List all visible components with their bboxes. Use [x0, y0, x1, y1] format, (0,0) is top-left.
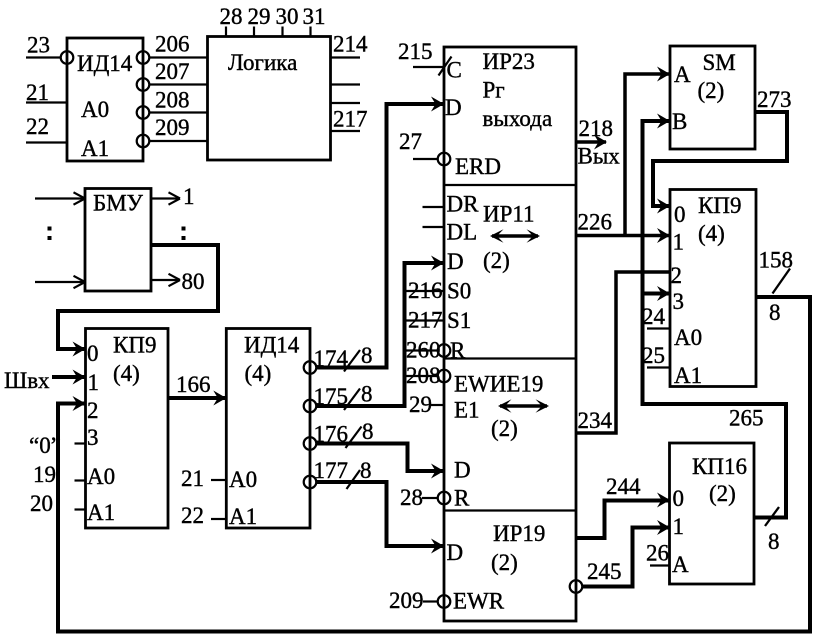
- svg-text:21: 21: [181, 466, 204, 491]
- svg-text:КП9: КП9: [113, 333, 156, 358]
- svg-text:КП9: КП9: [698, 193, 741, 218]
- block ИД14 top-left decoder: [67, 38, 143, 161]
- wire 217 output: [331, 107, 368, 132]
- svg-text:8: 8: [360, 458, 372, 483]
- svg-text:158: 158: [759, 248, 794, 273]
- svg-text:EWИЕ19: EWИЕ19: [454, 372, 543, 397]
- pin EW wire with bubble, label 208: [405, 363, 450, 388]
- pin S1 wire, label 217: [405, 308, 444, 333]
- wire 214 output: [331, 32, 369, 58]
- svg-text:A0: A0: [674, 325, 702, 350]
- divider ИЕ19/ИР19: [444, 509, 576, 511]
- wire 244 to КП16 input 0: [576, 474, 670, 538]
- svg-text:Швх: Швх: [4, 368, 50, 393]
- svg-text:20: 20: [30, 491, 53, 516]
- section ИР23 Рг выхода labels: [445, 49, 552, 179]
- bidirectional arrow ИЕ19: [498, 399, 549, 412]
- svg-text:A1: A1: [674, 363, 702, 388]
- block SM adder: [670, 46, 755, 149]
- pin 25 stub: [642, 343, 670, 368]
- pin A stub with 26 label: [646, 541, 670, 566]
- svg-text:215: 215: [398, 39, 433, 64]
- pin A1 stub with 20 label: [30, 491, 86, 516]
- svg-text:D: D: [447, 249, 464, 274]
- pin 21 input wire: [26, 80, 67, 105]
- svg-text:ИР19: ИР19: [493, 521, 545, 546]
- svg-text:166: 166: [176, 372, 211, 397]
- svg-text:8: 8: [769, 300, 781, 325]
- svg-text:ИР23: ИР23: [483, 49, 535, 74]
- svg-text:22: 22: [181, 503, 204, 528]
- wire into SM B / КП9 input 3 from 265 net: [643, 114, 787, 555]
- pin ERD wire with bubble, label 27: [399, 129, 450, 165]
- svg-text:27: 27: [399, 129, 422, 154]
- svg-text:S1: S1: [447, 308, 471, 333]
- svg-text:0: 0: [674, 202, 686, 227]
- pin 3 stub with "0" label: [29, 433, 86, 458]
- svg-text:1: 1: [88, 370, 100, 395]
- pin E1 wire, label 29: [409, 392, 444, 417]
- svg-text:1: 1: [673, 514, 685, 539]
- wire БМУ feedback to КП9 input 0: [58, 245, 218, 357]
- svg-text:A1: A1: [229, 504, 257, 529]
- wire logic output 3: [331, 102, 361, 104]
- svg-text:25: 25: [642, 343, 665, 368]
- svg-text:ИД14: ИД14: [244, 333, 300, 358]
- bidirectional arrow ИР11: [490, 229, 540, 242]
- БМУ input wire bottom: [35, 276, 85, 288]
- svg-text:DR: DR: [447, 192, 480, 217]
- svg-text:A1: A1: [81, 136, 109, 161]
- svg-text:SM: SM: [703, 50, 736, 75]
- wire 209 with bubble: [137, 115, 208, 147]
- svg-text:8: 8: [362, 419, 374, 444]
- wire 207 with bubble: [137, 59, 208, 91]
- svg-text:24: 24: [642, 304, 666, 329]
- svg-text:273: 273: [757, 87, 792, 112]
- svg-text:D: D: [454, 458, 471, 483]
- block ИД14 (4) demultiplexer: [226, 329, 310, 530]
- svg-text:1: 1: [183, 184, 195, 209]
- svg-text:D: D: [445, 95, 462, 120]
- svg-text:244: 244: [606, 474, 641, 499]
- svg-text:A: A: [672, 552, 689, 577]
- svg-text:DL: DL: [447, 220, 478, 245]
- svg-text:0: 0: [673, 486, 685, 511]
- svg-text:28: 28: [400, 485, 423, 510]
- svg-text:B: B: [672, 109, 687, 134]
- pin 30 top stub: [276, 4, 299, 37]
- wire 234 to КП9 input 2: [576, 272, 670, 433]
- wire 158 output with slash 8 and feedback to КП9-left input 2: [58, 248, 810, 632]
- svg-text:8: 8: [361, 343, 373, 368]
- svg-text:3: 3: [673, 289, 685, 314]
- pin DL stub: [423, 226, 445, 228]
- svg-text:29: 29: [409, 392, 432, 417]
- svg-text:БМУ: БМУ: [93, 191, 144, 216]
- svg-text:207: 207: [155, 59, 190, 84]
- БМУ output 1: [151, 184, 195, 209]
- svg-text:234: 234: [578, 408, 613, 433]
- pin EWR wire with bubble, label 209: [389, 588, 450, 613]
- svg-text:175: 175: [314, 384, 349, 409]
- wire 226 to SM A and КП9 input 1: [576, 67, 670, 244]
- bus 177 with bubble, slash 8: [304, 458, 444, 554]
- pin 22 wire to A1: [181, 503, 226, 528]
- svg-text:(4): (4): [245, 361, 272, 386]
- block БМУ: [85, 189, 151, 292]
- svg-text:(2): (2): [483, 248, 510, 273]
- svg-text:(2): (2): [491, 550, 518, 575]
- wire 206 with bubble: [137, 32, 208, 64]
- pin C wire with slash, label 215: [398, 39, 452, 76]
- pin S0 wire, label 216: [405, 278, 444, 303]
- svg-text:Рг: Рг: [483, 78, 505, 103]
- section ИЕ19 labels: [454, 372, 543, 511]
- svg-text:ИР11: ИР11: [483, 202, 535, 227]
- svg-text:КП16: КП16: [692, 454, 747, 479]
- svg-text:A1: A1: [87, 500, 115, 525]
- dots left of БМУ: [48, 227, 52, 241]
- Швх input wire: [4, 368, 86, 393]
- svg-text:(4): (4): [113, 361, 140, 386]
- pin DR stub: [423, 206, 445, 208]
- svg-text:214: 214: [333, 32, 368, 57]
- central register block outline: [444, 47, 576, 621]
- svg-text:R: R: [450, 338, 466, 363]
- wire logic output 2: [331, 83, 361, 85]
- svg-text:176: 176: [314, 422, 349, 447]
- bus 175 with bubble, slash 8: [304, 256, 444, 413]
- svg-text:30: 30: [276, 4, 299, 29]
- pin R wire with bubble, label 260: [405, 338, 450, 363]
- svg-text:A: A: [674, 62, 691, 87]
- divider ИР11/ИЕ19: [444, 357, 576, 359]
- pin 28 top stub: [220, 4, 243, 37]
- svg-text:3: 3: [87, 425, 99, 450]
- svg-text:31: 31: [303, 4, 326, 29]
- svg-text:26: 26: [646, 541, 669, 566]
- svg-text:21: 21: [26, 80, 49, 105]
- svg-text:177: 177: [314, 458, 349, 483]
- wire 245 with bubble to КП16 input 1: [570, 520, 670, 593]
- svg-text:174: 174: [314, 346, 349, 371]
- БМУ output 80: [151, 269, 205, 294]
- svg-text:29: 29: [248, 4, 271, 29]
- pin 24 stub: [642, 304, 670, 329]
- svg-text:8: 8: [361, 382, 373, 407]
- block Логика: [208, 37, 331, 161]
- svg-text:Логика: Логика: [228, 50, 297, 75]
- block КП16 multiplexer: [670, 443, 755, 584]
- svg-text:R: R: [454, 486, 470, 511]
- svg-text:265: 265: [729, 406, 764, 431]
- wire 166: [168, 372, 226, 406]
- svg-text:226: 226: [578, 210, 613, 235]
- svg-text:E1: E1: [454, 398, 480, 423]
- svg-text:(2): (2): [698, 78, 725, 103]
- svg-text:A0: A0: [87, 464, 115, 489]
- svg-text:206: 206: [155, 32, 190, 57]
- svg-text:A0: A0: [81, 97, 109, 122]
- dots between БМУ outputs: [182, 227, 186, 241]
- svg-text:(2): (2): [491, 416, 518, 441]
- svg-text:209: 209: [389, 588, 424, 613]
- pin 29 top stub: [248, 4, 271, 37]
- bus 174 with bubble, slash 8: [304, 97, 444, 374]
- pin 23 input wire with inversion bubble: [26, 33, 73, 64]
- svg-text:S0: S0: [447, 279, 471, 304]
- svg-text:245: 245: [587, 559, 622, 584]
- svg-text:выхода: выхода: [483, 106, 553, 131]
- svg-text:209: 209: [155, 115, 190, 140]
- pin 22 input wire: [26, 114, 67, 143]
- section ИР19 labels: [447, 521, 546, 614]
- wire 208 with bubble: [137, 88, 208, 119]
- svg-text:EWR: EWR: [453, 589, 505, 614]
- pin 31 top stub: [303, 4, 326, 37]
- svg-text:28: 28: [220, 4, 243, 29]
- svg-text:80: 80: [182, 269, 205, 294]
- svg-text:2: 2: [87, 398, 99, 423]
- svg-text:218: 218: [579, 116, 614, 141]
- wire 273 SM output to КП9 input 0: [653, 87, 792, 214]
- svg-text:(4): (4): [698, 221, 725, 246]
- section ИР11 labels: [447, 192, 535, 364]
- svg-text:8: 8: [768, 529, 780, 554]
- block КП9 right multiplexer: [670, 190, 756, 389]
- svg-text:217: 217: [333, 107, 368, 132]
- svg-text:(2): (2): [709, 481, 736, 506]
- bus 176 with bubble, slash 8: [304, 419, 444, 479]
- pin R(ИЕ19) wire with bubble, label 28: [400, 485, 450, 510]
- block КП9 left multiplexer: [86, 329, 169, 529]
- svg-text:ИД14: ИД14: [77, 51, 133, 76]
- pin 21 wire to A0: [181, 466, 226, 491]
- svg-text:22: 22: [26, 114, 49, 139]
- svg-text:1: 1: [673, 230, 685, 255]
- БМУ input wire top: [35, 192, 85, 204]
- svg-text:D: D: [447, 540, 464, 565]
- svg-text:2: 2: [671, 263, 683, 288]
- svg-text:0: 0: [87, 341, 99, 366]
- svg-text:A0: A0: [229, 467, 257, 492]
- svg-text:208: 208: [155, 88, 190, 113]
- svg-text:Вых: Вых: [578, 144, 621, 169]
- svg-text:19: 19: [33, 462, 56, 487]
- pin A0 stub with 19 label: [33, 462, 86, 487]
- svg-text:ERD: ERD: [455, 154, 501, 179]
- svg-text:23: 23: [27, 33, 50, 58]
- wire 218 Вых output arrow: [576, 116, 620, 169]
- divider ИР23/ИР11: [444, 184, 576, 186]
